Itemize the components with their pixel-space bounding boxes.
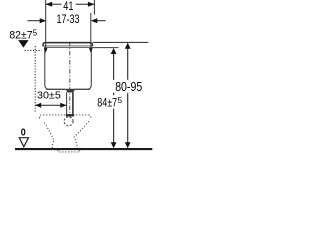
dim 41: left extension/shaft with down arrow onto lid: [45, 0, 47, 48]
dotted vertical reference line (rear of bowl): [34, 46, 36, 113]
dim 80-95: vertical line at x=127.7: [127, 49, 129, 80]
centerline of flush valve and pipe: [69, 42, 71, 118]
cistern body bottom line: [46, 88, 90, 90]
toilet bowl rim (dotted): [40, 115, 91, 119]
dotted water level line: [25, 49, 42, 51]
dim 84: vertical line at x=113.6: [113, 53, 115, 79]
flush pipe: [66, 92, 68, 114]
dim 17-33: left tail and arrowhead: [28, 20, 42, 22]
dim 41: dimension line: [46, 3, 62, 5]
svg-text:5: 5: [118, 96, 123, 105]
toilet bowl right side (dotted): [74, 121, 89, 148]
svg-text:0: 0: [21, 127, 26, 139]
svg-text:30±5: 30±5: [37, 90, 61, 102]
cistern lid: [43, 43, 93, 47]
dim 17-33: right extension/shaft with down arrow onto lid: [90, 13, 92, 48]
dim 17-33: right tail and arrowhead: [96, 20, 106, 22]
cistern body: [45, 46, 92, 89]
svg-text:80-95: 80-95: [115, 79, 142, 94]
dim 30±5: left arrowhead: [35, 103, 41, 108]
outlet funnel: [66, 89, 75, 92]
dim 80-95: up arrowhead: [125, 43, 131, 49]
extension line B (body rim, for 84): [92, 47, 119, 49]
toilet bowl left side (dotted): [44, 123, 54, 149]
dim 41: left arrowhead: [46, 2, 53, 7]
level mark filled triangle: [18, 40, 28, 48]
dim 80-95: down arrowhead: [125, 142, 131, 148]
pipe spud flange: [66, 114, 74, 116]
floor line: [15, 148, 152, 150]
svg-text:84±7: 84±7: [97, 96, 117, 109]
svg-text:17-33: 17-33: [57, 12, 80, 26]
svg-text:82±7: 82±7: [9, 30, 32, 42]
svg-text:5: 5: [33, 28, 38, 37]
dim 41: right arrowhead: [88, 2, 95, 7]
dim 41: right tick: [93, 0, 95, 15]
cistern lid bottom edge: [43, 45, 93, 47]
dashed connector circle: [64, 117, 73, 126]
bowl plinth below floor (dotted): [58, 150, 80, 152]
dim 84: down arrowhead: [111, 142, 117, 148]
dim 84: up arrowhead: [111, 48, 117, 54]
dim 30±5: dimension line: [35, 104, 66, 106]
cistern body rim line: [45, 47, 92, 49]
extension line A (lid top, for 80-95): [93, 41, 148, 43]
datum open triangle: [19, 138, 28, 147]
dim 30±5: right arrowhead: [60, 103, 66, 108]
